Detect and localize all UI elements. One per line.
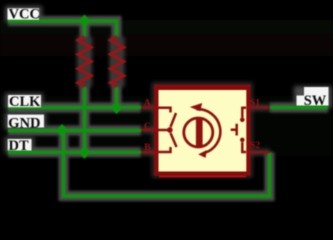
svg-text:VCC: VCC — [9, 7, 40, 23]
net label VCC — [8, 8, 40, 19]
wire DT — [8, 151, 141, 154]
wire CLK halo — [8, 103, 141, 113]
rotation arrowhead top — [190, 103, 202, 111]
component halos — [85, 37, 271, 176]
switch bracket S2 side — [242, 142, 246, 152]
rotation arrow arc — [196, 109, 220, 153]
wire GND-to-switch halo — [64, 131, 270, 197]
label halo CLK — [5, 93, 43, 109]
encoder wiper C — [159, 129, 168, 132]
switch contact dot bottom — [240, 138, 245, 143]
label halo DT — [5, 137, 34, 153]
label halo GND — [5, 113, 46, 130]
switch bracket S1 side — [242, 108, 246, 118]
junction CLK/R2 — [111, 101, 123, 114]
svg-text:CLK: CLK — [9, 94, 41, 110]
wire R1 vertical halo — [80, 21, 90, 152]
resistor R1 (VCC to DT pull-up) — [78, 37, 91, 87]
wire halos — [8, 21, 328, 196]
encoder wiper dot — [167, 127, 173, 133]
wire DT halo — [8, 147, 141, 157]
svg-text:C: C — [144, 122, 151, 132]
net label DT — [8, 139, 32, 151]
svg-text:DT: DT — [9, 138, 29, 154]
svg-text:SW: SW — [304, 93, 327, 109]
wire R2 bottom to CLK — [115, 87, 118, 108]
wire VCC rail — [8, 19, 117, 22]
net label SW — [297, 96, 329, 106]
wire GND — [8, 129, 141, 132]
svg-text:B: B — [144, 143, 151, 153]
wire GND junction down, along bottom, up to S2 — [64, 131, 270, 197]
junction VCC/R1 — [79, 15, 91, 28]
resistor R2 (VCC to CLK pull-up) — [111, 37, 124, 87]
encoder contact B — [159, 147, 171, 152]
svg-text:GND: GND — [8, 115, 40, 131]
bright highlight line under body — [159, 176, 246, 178]
wire R1 bottom to DT (crosses CLK and GND) — [83, 87, 86, 152]
switch actuator — [231, 124, 237, 136]
wire SW — [270, 106, 329, 109]
svg-text:S1: S1 — [250, 98, 260, 108]
encoder knob circle — [184, 118, 213, 147]
junction DT/R1 — [79, 146, 91, 159]
pin B — [141, 151, 158, 154]
pin A — [141, 106, 158, 109]
svg-text:S2: S2 — [250, 141, 260, 151]
pin S2 — [247, 151, 270, 154]
svg-text:A: A — [144, 98, 151, 108]
wire VCC rail halo — [8, 21, 117, 36]
green wires — [8, 19, 328, 196]
wire R2 vertical halo — [112, 36, 122, 108]
wire SW halo — [270, 103, 329, 113]
junction GND/switch-return — [56, 124, 68, 137]
wire GND halo — [8, 126, 141, 136]
label halo SW — [294, 86, 332, 108]
encoder contact A — [159, 108, 171, 113]
net label GND — [8, 115, 44, 128]
wire VCC junction to R1 top — [83, 21, 86, 37]
encoder knob slot bar — [196, 118, 203, 147]
switch contact dot top — [240, 118, 245, 123]
rotary encoder SW1 body — [154, 85, 251, 178]
label halo VCC — [5, 6, 42, 22]
pin C — [141, 129, 158, 132]
net label CLK — [8, 95, 41, 107]
pin S1 — [247, 106, 270, 109]
rotation arrowhead bottom — [198, 150, 207, 158]
wire VCC corner to R2 top — [115, 19, 118, 36]
wire CLK — [8, 106, 141, 109]
